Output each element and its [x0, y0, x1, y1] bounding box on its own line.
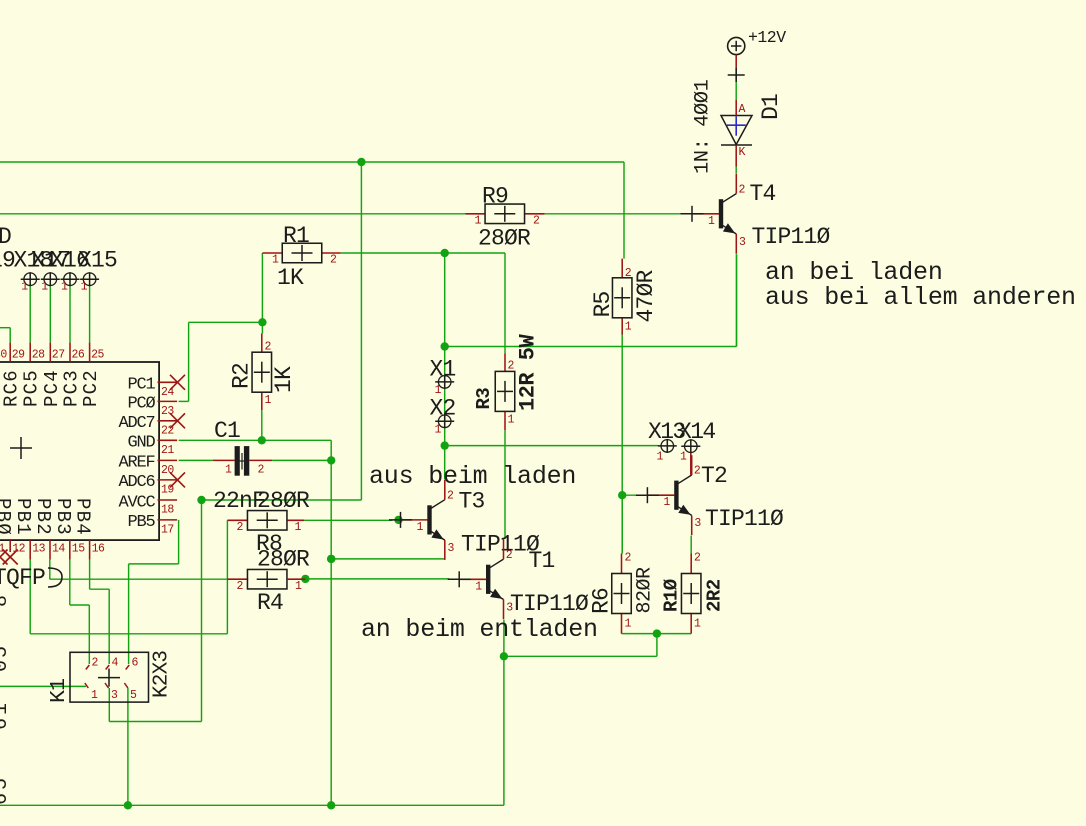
svg-text:1: 1 — [225, 464, 232, 477]
wire AVCC down — [201, 500, 203, 722]
wire h346 row — [445, 254, 737, 346]
svg-text:TIP11Ø: TIP11Ø — [705, 506, 784, 532]
partial text D — [0, 224, 12, 250]
svg-text:27: 27 — [52, 349, 65, 362]
svg-text:2: 2 — [625, 552, 632, 565]
junction R4 pin1 — [301, 575, 309, 583]
wire X18 drop — [29, 286, 31, 343]
wire T3 emitter row — [331, 558, 445, 560]
wire R6 top — [621, 495, 623, 553]
resistor R9 — [485, 204, 525, 224]
svg-text:1: 1 — [417, 521, 424, 534]
svg-text:R6: R6 — [589, 588, 615, 614]
svg-text:PB1: PB1 — [12, 498, 34, 536]
wire supply to diode — [735, 82, 737, 100]
note an beim entladen — [361, 615, 598, 644]
wire X15 drop — [89, 286, 91, 343]
svg-text:2: 2 — [258, 464, 265, 477]
svg-text:15: 15 — [72, 543, 85, 556]
svg-text:RC6: RC6 — [1, 369, 23, 407]
svg-text:30: 30 — [0, 349, 7, 362]
wire R1 row to R3 — [341, 253, 505, 353]
wire bottom rail — [0, 804, 504, 806]
wire T2 emitter to R10 — [690, 536, 692, 554]
svg-text:PCØ: PCØ — [127, 395, 155, 414]
junction AREF C1 — [327, 456, 335, 464]
wire PB5 down — [129, 520, 179, 664]
no-connect X pin24 — [170, 375, 185, 390]
capacitor C1 — [213, 446, 272, 476]
label R10 bold — [661, 579, 683, 612]
wire T3 collector up — [444, 446, 446, 480]
junction h346 — [441, 342, 449, 350]
value 1K R1 — [277, 265, 304, 291]
label T1 — [529, 548, 555, 574]
svg-text:PC1: PC1 — [127, 376, 155, 395]
wire T4 emitter down — [736, 254, 738, 346]
svg-text:1: 1 — [663, 496, 670, 509]
junction R2 pin1 GND — [258, 436, 266, 444]
resistor R3 — [495, 371, 515, 411]
wire R6-R10 bottom row — [622, 633, 692, 635]
wire GND row — [179, 440, 332, 460]
pin X2 — [435, 414, 455, 436]
resistor R4 pins — [227, 579, 305, 593]
value TIP110 T2 — [705, 506, 784, 532]
svg-text:1: 1 — [435, 424, 442, 437]
resistor R6 — [612, 574, 632, 614]
label R8 — [256, 531, 282, 557]
svg-text:82ØR: 82ØR — [634, 567, 657, 614]
junction top rail — [357, 158, 365, 166]
svg-text:2: 2 — [330, 254, 337, 267]
svg-text:1: 1 — [41, 281, 48, 294]
connector K1 — [70, 652, 149, 702]
labels X13 X14 — [648, 419, 715, 445]
svg-text:28ØR: 28ØR — [478, 226, 531, 252]
wire pin13 down — [30, 560, 227, 634]
junction X13 row — [441, 441, 449, 449]
svg-text:R1: R1 — [283, 223, 309, 249]
svg-text:1: 1 — [508, 414, 515, 427]
svg-text:5: 5 — [0, 778, 13, 790]
wire K1 pin5 down — [127, 688, 129, 805]
svg-text:29: 29 — [12, 349, 25, 362]
wire AVCC row — [202, 499, 362, 501]
svg-text:K: K — [739, 146, 746, 159]
resistor R2 pins — [262, 334, 272, 411]
svg-text:1: 1 — [694, 618, 701, 631]
junction GND row R4 — [327, 555, 335, 563]
wire R4 row to T1 base — [305, 578, 449, 580]
label R9 — [482, 184, 508, 210]
svg-text:0: 0 — [0, 660, 13, 672]
wire node V444 upper — [444, 253, 446, 347]
label R1 — [283, 223, 309, 249]
svg-text:28: 28 — [32, 349, 45, 362]
svg-text:28ØR: 28ØR — [257, 488, 310, 514]
svg-text:2: 2 — [508, 360, 515, 373]
wire K1 pin1 west — [0, 685, 86, 687]
junction rail GND — [327, 801, 335, 809]
wire R9 to T4 base — [545, 213, 684, 215]
resistor R5 — [612, 278, 632, 318]
svg-text:1: 1 — [91, 689, 98, 702]
svg-text:3: 3 — [448, 542, 455, 555]
svg-text:R1Ø: R1Ø — [661, 579, 683, 612]
junction R6 R10 bottoms — [653, 629, 661, 637]
transistor T1 — [448, 539, 514, 619]
junction PC0 node — [258, 318, 266, 326]
no-connect X pin11 — [0, 550, 8, 565]
svg-text:AREF: AREF — [118, 454, 154, 473]
wire rail to R5 — [361, 162, 624, 259]
svg-text:TIP11Ø: TIP11Ø — [510, 591, 589, 617]
svg-text:T1: T1 — [529, 548, 555, 574]
label R3 bold — [473, 388, 495, 410]
label R5 — [590, 291, 616, 317]
wire T1 emitter node east — [504, 634, 657, 657]
svg-text:2: 2 — [533, 215, 540, 228]
svg-text:3: 3 — [694, 517, 701, 530]
resistor R5 pins — [622, 259, 632, 335]
IC bottom pins 12-16 — [0, 498, 105, 560]
wire pin16 to K1 pin4 — [90, 560, 110, 664]
svg-text:25: 25 — [91, 349, 104, 362]
resistor R1 — [282, 243, 322, 263]
svg-text:1: 1 — [61, 281, 68, 294]
wire pin14 to R4 row — [50, 560, 228, 580]
svg-text:17: 17 — [161, 523, 174, 536]
value 1N 4001 — [692, 79, 715, 174]
wire diode to T4 — [735, 167, 737, 174]
partial TQFP label — [0, 565, 62, 591]
junction T2 base — [618, 491, 626, 499]
resistor R8 pins — [227, 520, 304, 534]
supply +12V — [728, 37, 745, 82]
wire X13 row — [445, 445, 659, 447]
svg-text:6: 6 — [0, 718, 13, 730]
resistor R4 — [247, 569, 287, 589]
svg-text:PC5: PC5 — [21, 369, 43, 407]
IC U1 TQFP body — [0, 362, 159, 540]
partial left-edge text — [0, 595, 13, 805]
value 280R R4 — [257, 547, 310, 573]
resistor R1 pins — [262, 253, 340, 267]
value 280R R8 — [257, 488, 310, 514]
wire AVCC riser — [360, 162, 362, 500]
no-connect X pin22 — [170, 413, 185, 428]
svg-text:X2: X2 — [430, 396, 456, 422]
pin X14 — [680, 439, 700, 475]
svg-text:1: 1 — [295, 580, 302, 593]
svg-text:1: 1 — [625, 618, 632, 631]
svg-text:T2: T2 — [701, 463, 727, 489]
pin X13 — [657, 439, 677, 464]
svg-text:2: 2 — [237, 521, 244, 534]
resistor R6 pins — [622, 552, 632, 634]
svg-text:X15: X15 — [78, 248, 117, 274]
svg-text:1: 1 — [680, 451, 687, 464]
svg-text:1: 1 — [708, 215, 715, 228]
value TIP110 T4 — [752, 224, 831, 250]
svg-text:K1: K1 — [47, 679, 71, 703]
svg-text:GND: GND — [127, 434, 155, 453]
svg-text:1N: 4ØØ1: 1N: 4ØØ1 — [692, 79, 715, 174]
svg-text:PB2: PB2 — [32, 498, 54, 536]
label R4 — [257, 590, 283, 616]
svg-text:2: 2 — [694, 552, 701, 565]
svg-text:26: 26 — [72, 349, 85, 362]
no-connect X pin19 — [170, 472, 185, 487]
wire +12V/AVCC rail top — [0, 161, 361, 163]
svg-text:1: 1 — [21, 281, 28, 294]
svg-text:2: 2 — [694, 465, 701, 478]
svg-text:2: 2 — [237, 580, 244, 593]
wire R8.2 drop — [226, 520, 228, 634]
value 22nF — [213, 488, 265, 514]
svg-text:2R2: 2R2 — [704, 579, 726, 612]
value 470R R5 — [633, 269, 659, 322]
label +12V — [748, 28, 786, 47]
pin X1 — [435, 375, 455, 397]
wire R9 row left — [0, 213, 465, 215]
wire GND riser — [330, 460, 332, 805]
wire R5 pin1 down — [621, 335, 623, 554]
svg-text:D: D — [0, 224, 12, 250]
svg-text:aus beim laden: aus beim laden — [369, 462, 576, 491]
svg-text:1K: 1K — [271, 366, 297, 393]
diode D1 — [721, 100, 752, 167]
svg-text:R2: R2 — [229, 363, 255, 389]
svg-text:R3: R3 — [473, 388, 495, 410]
svg-text:PB3: PB3 — [52, 498, 74, 536]
pins X15-X18 circles — [21, 272, 99, 293]
svg-text:6: 6 — [0, 793, 13, 805]
transistor T2 — [636, 455, 702, 535]
junction AVCC — [197, 496, 205, 504]
svg-text:18: 18 — [161, 504, 174, 517]
note aus beim laden — [369, 462, 576, 491]
transistor T4 — [681, 174, 747, 254]
svg-text:2: 2 — [447, 489, 454, 502]
junction rail K1.5 — [124, 801, 132, 809]
wire rail riser T1 — [503, 656, 505, 805]
resistor R2 — [252, 352, 271, 392]
resistor R10 — [681, 574, 701, 614]
note aus bei allem anderen — [765, 283, 1076, 312]
label X1 — [430, 357, 456, 383]
svg-text:1: 1 — [295, 521, 302, 534]
value 1K R2 — [271, 366, 297, 393]
svg-text:2: 2 — [739, 183, 746, 196]
value K2X3 — [151, 651, 174, 698]
svg-text:PB4: PB4 — [72, 498, 94, 536]
svg-text:1: 1 — [625, 321, 632, 334]
label R6 — [589, 588, 615, 614]
label K1 — [47, 679, 71, 703]
value TIP110 T3 — [461, 532, 540, 558]
resistor R8 — [247, 511, 287, 531]
svg-text:PBØ: PBØ — [0, 498, 14, 536]
value 2R2 bold — [704, 579, 726, 612]
svg-text:13: 13 — [32, 543, 45, 556]
wire T1 emitter down — [503, 620, 505, 657]
wire PC0 row — [179, 322, 263, 401]
svg-text:1: 1 — [475, 580, 482, 593]
wire X16 drop — [69, 286, 71, 343]
svg-text:K2X3: K2X3 — [151, 651, 174, 698]
label T2 — [701, 463, 727, 489]
svg-text:aus bei allem anderen: aus bei allem anderen — [765, 283, 1076, 312]
value 280R R9 — [478, 226, 531, 252]
svg-text:PC2: PC2 — [80, 369, 102, 407]
svg-text:1: 1 — [81, 281, 88, 294]
svg-text:A: A — [739, 103, 746, 116]
wire T2 base — [622, 494, 641, 496]
svg-text:+12V: +12V — [748, 28, 786, 47]
svg-text:8: 8 — [0, 595, 13, 607]
svg-text:2: 2 — [92, 657, 99, 670]
svg-text:1K: 1K — [277, 265, 304, 291]
svg-text:12R 5W: 12R 5W — [516, 333, 541, 411]
svg-text:5: 5 — [0, 646, 13, 658]
svg-text:C1: C1 — [214, 418, 240, 444]
wire pin15 to K1 pin2 — [70, 560, 90, 664]
svg-text:R9: R9 — [482, 184, 508, 210]
svg-text:R5: R5 — [590, 291, 616, 317]
svg-text:6: 6 — [132, 657, 139, 670]
svg-text:3: 3 — [111, 689, 118, 702]
label X2 — [430, 396, 456, 422]
svg-text:3: 3 — [739, 236, 746, 249]
junction T3 base — [394, 516, 402, 524]
wire R2 pin1 down — [261, 410, 263, 440]
svg-text:1: 1 — [0, 703, 13, 715]
label T3 — [459, 489, 485, 515]
svg-text:ADC6: ADC6 — [118, 473, 155, 492]
wire C1 pin2 row — [272, 459, 331, 461]
wire R8 row to T3 base — [304, 519, 392, 521]
wire R3 pin1 to T1 collector — [504, 430, 506, 539]
svg-text:4: 4 — [112, 657, 119, 670]
svg-text:R4: R4 — [257, 590, 283, 616]
junction T3 emitter row — [327, 555, 335, 563]
junction R1 row — [441, 249, 449, 257]
svg-text:an beim entladen: an beim entladen — [361, 615, 598, 644]
svg-text:D1: D1 — [758, 94, 784, 120]
IC top pins 29-25 — [0, 343, 105, 407]
label D1 — [758, 94, 784, 120]
svg-text:2: 2 — [506, 549, 513, 562]
svg-text:47ØR: 47ØR — [633, 269, 659, 322]
svg-text:16: 16 — [92, 543, 105, 556]
svg-text:5: 5 — [130, 689, 137, 702]
wire R1 pin1 down — [261, 253, 263, 334]
svg-text:T4: T4 — [750, 181, 776, 207]
wire X1X2 column — [444, 347, 446, 446]
resistor R3 pins — [505, 353, 515, 430]
svg-text:TIP11Ø: TIP11Ø — [752, 224, 831, 250]
label T4 — [750, 181, 776, 207]
svg-text:ADC7: ADC7 — [118, 414, 154, 433]
wire AVCC to K1 pin3 — [109, 688, 201, 722]
resistor R9 pins — [465, 214, 544, 228]
IC right pins 24-17 — [118, 376, 177, 537]
junction T1 emitter — [500, 652, 508, 660]
resistor R10 pins — [691, 552, 701, 634]
wire X17 drop — [49, 286, 51, 343]
svg-text:1: 1 — [265, 394, 272, 407]
svg-text:28ØR: 28ØR — [257, 547, 310, 573]
svg-text:AVCC: AVCC — [118, 493, 155, 512]
svg-text:TQFP: TQFP — [0, 565, 45, 591]
svg-text:X14: X14 — [678, 419, 715, 445]
svg-text:X1: X1 — [430, 357, 456, 383]
svg-text:T3: T3 — [459, 489, 485, 515]
note an bei laden — [765, 258, 943, 287]
value 12R 5W bold — [516, 333, 541, 411]
value 820R — [634, 567, 657, 614]
label C1 — [214, 418, 240, 444]
no-connect X pin12 — [3, 550, 18, 565]
svg-text:PC4: PC4 — [41, 369, 63, 407]
label R2 — [229, 363, 255, 389]
svg-text:14: 14 — [52, 543, 65, 556]
value TIP110 T1 — [510, 591, 589, 617]
svg-text:1: 1 — [657, 451, 664, 464]
labels X15-X19 — [0, 248, 117, 274]
transistor T3 — [389, 480, 455, 560]
svg-text:21: 21 — [161, 444, 174, 457]
svg-text:PB5: PB5 — [127, 513, 155, 532]
wire PC6 pin29 — [0, 328, 10, 343]
wire AREF row — [179, 459, 213, 461]
